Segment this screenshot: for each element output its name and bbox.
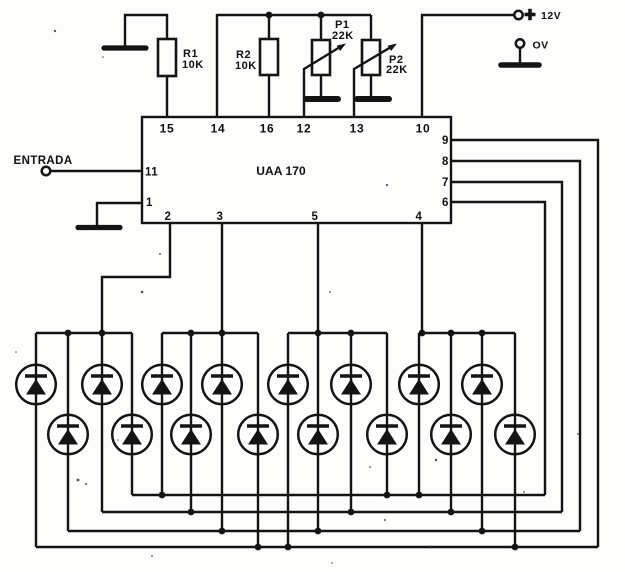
svg-text:9: 9 [442, 135, 449, 147]
svg-text:12: 12 [297, 122, 312, 136]
op-amp U1 UAA170 IC body [142, 117, 451, 223]
wire 0V to ground [519, 49, 521, 64]
wire ENTRADA to pin 11 [51, 170, 142, 172]
LED D11 [331, 365, 371, 405]
junction bus (451,512) [448, 509, 455, 516]
LED D7 [202, 365, 242, 405]
wire pin 2 to LED group 1 [102, 223, 170, 333]
wire LED column 10 [317, 333, 319, 531]
LED D10 [298, 415, 338, 455]
wire P1 wiper to pin 12 [303, 68, 305, 117]
resistor R1 [158, 39, 176, 76]
junction bus (258,547) [255, 544, 262, 551]
junction bus (222,531) [219, 528, 226, 535]
LED D14 [431, 415, 471, 455]
wire anode bus group 3 [288, 332, 387, 334]
svg-text:8: 8 [442, 156, 449, 168]
wire +12V rail (pin10 to terminal) [421, 14, 514, 16]
ground (P1) [306, 96, 338, 102]
wire P2 wiper to pin 13 [353, 68, 355, 117]
junction rail/P1 [318, 12, 325, 19]
junction bus (162,495) [159, 492, 166, 499]
junction bus x=318 [315, 330, 322, 337]
wire cathode bus A (pin 6) [132, 494, 545, 496]
junction bus x=351 [348, 330, 355, 337]
P2 wiper arrow [354, 47, 391, 69]
junction bus (191,512) [188, 509, 195, 516]
svg-text:10K: 10K [182, 59, 204, 71]
wire pin 3 to LED group 2 [221, 223, 223, 333]
wire ground to R1 top [125, 15, 167, 48]
wire LED column 5 [161, 333, 163, 495]
wire pin 1 to ground [97, 203, 142, 225]
LED D8 [238, 415, 278, 455]
wire anode bus group 4 [419, 332, 515, 334]
resistor R2 [260, 39, 278, 75]
wire rail to pin 10 [421, 14, 423, 117]
LED D2 [48, 415, 88, 455]
junction bus x=222 [219, 330, 226, 337]
svg-text:16: 16 [260, 122, 275, 136]
wire LED column 3 [101, 333, 103, 512]
junction bus (482,531) [479, 528, 486, 535]
wire pin 8 to bus C [451, 161, 580, 531]
LED D5 [142, 365, 182, 405]
P1 wiper arrow [304, 47, 340, 69]
wire rail to R2 [268, 15, 270, 39]
svg-text:15: 15 [160, 122, 175, 136]
wire pin 7 to bus B [451, 182, 562, 512]
wire LED column 15 [481, 333, 483, 531]
svg-text:11: 11 [145, 167, 158, 179]
LED D9 [268, 365, 308, 405]
terminal 0V [516, 39, 524, 47]
LED D13 [399, 365, 439, 405]
wire LED column 2 [67, 333, 69, 531]
wire +12V rail (pin14 to P2) [217, 14, 371, 16]
wire LED column 13 [418, 333, 420, 495]
wire cathode bus B (pin 7) [102, 511, 562, 513]
junction bus x=102 [99, 330, 106, 337]
wire anode bus group 1 [36, 332, 132, 334]
junction bus (419,495) [416, 492, 423, 499]
wire LED column 12 [386, 333, 388, 495]
wire rail to pin 14 [216, 14, 218, 117]
svg-text:OV: OV [533, 40, 549, 52]
wire LED column 14 [450, 333, 452, 512]
LED D16 [495, 415, 535, 455]
junction bus x=68 [65, 330, 72, 337]
ground (pin 1) [78, 225, 120, 230]
svg-text:7: 7 [442, 177, 449, 189]
potentiometer P1 [312, 40, 330, 75]
LED D6 [171, 415, 211, 455]
LED D1 [16, 365, 56, 405]
svg-text:6: 6 [442, 197, 449, 209]
svg-text:5: 5 [312, 211, 319, 223]
LED D15 [462, 365, 502, 405]
ground (top left, R1 top) [104, 45, 146, 50]
LED D4 [112, 415, 152, 455]
junction rail/R2 [266, 12, 273, 19]
junction bus x=191 [188, 330, 195, 337]
wire R2 to pin 16 [268, 75, 270, 117]
wire rail to P2 [370, 15, 372, 40]
wire cathode bus C (pin 8) [68, 530, 580, 532]
svg-text:12V: 12V [541, 10, 561, 22]
junction bus (351,512) [348, 509, 355, 516]
wire LED column 9 [287, 333, 289, 547]
wire LED column 1 [35, 333, 37, 547]
junction bus (318,531) [315, 528, 322, 535]
svg-text:10: 10 [416, 122, 431, 136]
potentiometer P2 [362, 40, 380, 75]
terminal +12V [514, 11, 522, 19]
svg-text:22K: 22K [386, 64, 408, 76]
svg-text:10K: 10K [235, 60, 257, 72]
svg-text:UAA 170: UAA 170 [256, 164, 306, 178]
wire pin 4 to LED group 4 [421, 223, 423, 333]
junction bus x=482 [479, 330, 486, 337]
wire LED column 16 [514, 333, 516, 547]
wire LED column 6 [190, 333, 192, 512]
svg-text:4: 4 [416, 211, 423, 223]
svg-text:3: 3 [217, 211, 224, 223]
junction bus (515,547) [512, 544, 519, 551]
wire anode bus group 2 [162, 332, 258, 334]
junction bus x=422 [419, 330, 426, 337]
wire LED column 7 [221, 333, 223, 531]
junction bus x=451 [448, 330, 455, 337]
wire pin 5 to LED group 3 [317, 223, 319, 333]
svg-text:22K: 22K [332, 30, 354, 42]
svg-text:14: 14 [211, 122, 226, 136]
LED D12 [367, 415, 407, 455]
wire rail to P1 [320, 15, 322, 40]
LED D3 [82, 365, 122, 405]
svg-text:1: 1 [146, 197, 153, 209]
svg-text:2: 2 [165, 211, 172, 223]
wire LED column 4 [131, 333, 133, 495]
ground (0V) [501, 62, 539, 68]
wire pin 9 to bus D [451, 140, 598, 547]
svg-text:13: 13 [350, 122, 365, 136]
junction bus (387,495) [384, 492, 391, 499]
wire LED column 8 [257, 333, 259, 547]
wire cathode bus D (pin 9) [36, 546, 598, 548]
wire R1 to pin 15 [166, 76, 168, 117]
junction bus (288,547) [285, 544, 292, 551]
wire LED column 11 [350, 333, 352, 512]
wire P1 bottom to ground [320, 75, 322, 96]
end [54, 30, 56, 32]
wire P2 bottom to ground [370, 75, 372, 96]
ground (P2) [357, 96, 389, 102]
wire pin 6 to bus A [451, 202, 545, 495]
svg-text:ENTRADA: ENTRADA [14, 155, 73, 167]
terminal ENTRADA [42, 167, 51, 176]
